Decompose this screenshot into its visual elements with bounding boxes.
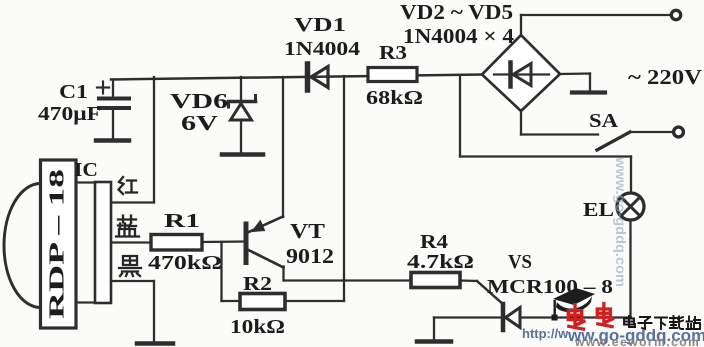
svg-text:VD2 ~ VD5: VD2 ~ VD5 — [400, 0, 513, 24]
svg-text:R1: R1 — [164, 210, 200, 232]
svg-text:VD6: VD6 — [170, 89, 228, 113]
watermark site name (dian zi xia zai zhan) — [624, 316, 700, 329]
label VS value — [487, 251, 613, 298]
ground under VS — [417, 318, 451, 342]
svg-text:http://w: http://w — [522, 326, 569, 341]
resistor R2 — [240, 294, 285, 310]
svg-text:~ 220V: ~ 220V — [628, 65, 702, 89]
label R4 value — [407, 231, 474, 273]
svg-text:www.go-gddq.com: www.go-gddq.com — [613, 156, 629, 287]
wire black lead — [111, 281, 154, 342]
wire base to R2 — [222, 242, 241, 301]
svg-text:470μF: 470μF — [38, 103, 101, 125]
svg-text:R4: R4 — [420, 231, 448, 253]
wire bridge bottom AC lead — [521, 111, 598, 135]
svg-text:R2: R2 — [243, 273, 272, 295]
label VD1 value — [284, 14, 360, 60]
label 220V — [628, 65, 702, 89]
svg-text:MCR100 – 8: MCR100 – 8 — [487, 276, 613, 298]
wire R1 to base — [202, 240, 245, 243]
svg-text:68kΩ: 68kΩ — [366, 87, 423, 109]
wire red lead riser — [111, 77, 154, 203]
ground bar under C1 — [96, 138, 129, 143]
label EL — [583, 199, 614, 221]
label C1 value — [38, 81, 101, 125]
svg-text:VT: VT — [290, 219, 325, 243]
wire R2 top riser — [285, 76, 344, 301]
svg-text:4.7kΩ: 4.7kΩ — [407, 251, 474, 273]
switch SA — [597, 132, 672, 150]
watermark url — [522, 326, 704, 345]
transistor VT — [246, 217, 284, 281]
svg-text:C1: C1 — [59, 81, 88, 103]
label R3 value — [366, 42, 423, 109]
label VD2-VD5 — [400, 0, 515, 48]
lamp EL — [617, 193, 644, 318]
sensor RDP-18 — [41, 160, 77, 328]
svg-text:RDP – 18: RDP – 18 — [45, 169, 69, 319]
bridge rectifier VD2-VD5 — [482, 35, 560, 111]
ground bar right of bridge — [572, 90, 605, 94]
watermark bug characters — [568, 304, 612, 330]
label black lead (hei) — [119, 256, 141, 276]
svg-text:EL: EL — [583, 199, 614, 221]
label blue lead (lan) — [116, 216, 139, 237]
label VD6 value — [170, 89, 228, 135]
watermark vertical url — [613, 156, 629, 287]
wire R4 to gate — [460, 281, 504, 306]
svg-text:1N4004 × 4: 1N4004 × 4 — [403, 24, 515, 48]
svg-text:www.eeworm.com: www.eeworm.com — [574, 335, 700, 347]
wire collector to R4 — [285, 279, 412, 281]
svg-text:VS: VS — [508, 251, 532, 273]
label IC — [74, 159, 98, 181]
wire bridge right AC lead — [560, 74, 590, 92]
resistor R3 — [368, 68, 417, 82]
sensor dome — [4, 184, 41, 308]
wire blue lead — [111, 241, 151, 243]
ground black lead — [137, 341, 173, 346]
resistor R1 — [151, 235, 202, 251]
capacitor C1 — [97, 80, 129, 140]
svg-text:VD1: VD1 — [294, 14, 346, 36]
svg-text:1N4004: 1N4004 — [284, 38, 360, 60]
ground bar under VD6 — [222, 152, 263, 157]
wire main positive rail — [111, 75, 482, 80]
terminal bottom — [674, 127, 684, 137]
zener diode VD6 — [229, 77, 256, 153]
label RDP-18 — [45, 169, 69, 319]
diode VD1 — [308, 64, 329, 90]
terminal top — [671, 10, 680, 19]
wire bridge negative riser — [460, 75, 631, 194]
label VT value — [286, 219, 334, 268]
svg-text:9012: 9012 — [286, 244, 334, 268]
svg-text:470kΩ: 470kΩ — [148, 252, 222, 274]
label R2 value — [230, 273, 285, 338]
svg-text:SA: SA — [589, 110, 619, 132]
svg-text:10kΩ: 10kΩ — [230, 316, 285, 338]
label SA — [589, 110, 619, 132]
svg-text:IC: IC — [74, 159, 98, 181]
label R1 value — [148, 210, 222, 274]
label red lead (hong) — [119, 177, 138, 194]
watermark eeworm — [574, 335, 700, 347]
thyristor VS — [434, 304, 631, 330]
IC block — [76, 182, 111, 303]
watermark cap logo — [552, 288, 596, 321]
wire bridge top AC lead — [521, 15, 672, 35]
resistor R4 — [411, 273, 460, 288]
svg-text:6V: 6V — [181, 111, 218, 135]
wire VT emitter riser — [282, 77, 284, 217]
